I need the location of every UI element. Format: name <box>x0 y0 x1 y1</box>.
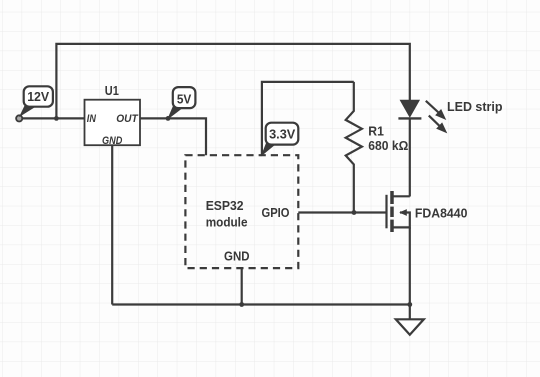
pin label GND (U1) <box>102 135 122 147</box>
label 12V callout <box>20 86 53 116</box>
voltage regulator U1 <box>85 100 141 146</box>
wire GPIO to MOSFET gate <box>298 211 386 213</box>
wire ESP32 3.3V node up and over to R1 top <box>262 82 354 155</box>
svg-text:OUT: OUT <box>116 113 139 125</box>
svg-text:module: module <box>206 215 248 230</box>
junction node 5V <box>166 116 171 121</box>
transistor Q1 FDA8440 (N-MOSFET) <box>387 191 410 232</box>
pin label GND (ESP32) <box>224 249 250 264</box>
svg-text:GND: GND <box>224 249 250 264</box>
LED (anode top, cathode bar) <box>398 100 421 118</box>
pin label IN <box>87 113 97 125</box>
svg-text:IN: IN <box>87 113 97 125</box>
ground <box>396 305 424 335</box>
pin label GPIO <box>262 205 290 220</box>
svg-text:ESP32: ESP32 <box>206 198 244 213</box>
svg-text:5V: 5V <box>177 91 192 106</box>
label R1 value 680 kOhm <box>368 124 408 154</box>
label U1 <box>105 83 119 98</box>
svg-text:LED strip: LED strip <box>447 99 503 114</box>
label FDA8440 <box>415 205 468 220</box>
resistor R1 <box>346 82 362 213</box>
wire 12V rail top: node A up, across top, down to LED anode <box>56 44 409 119</box>
wire 12V terminal to U1 IN <box>19 117 85 119</box>
junction ESP32 GND / ground rail <box>239 302 244 307</box>
wire LED cathode to MOSFET drain <box>409 118 411 196</box>
svg-text:GPIO: GPIO <box>262 205 290 220</box>
wire U1 OUT to 5V node and down to ESP32 <box>140 118 206 155</box>
LED emission arrows <box>426 101 447 133</box>
ESP32 module box <box>185 155 298 268</box>
wire MOSFET source down to ground node <box>409 228 411 305</box>
label 5V callout <box>168 87 195 118</box>
junction R1 bottom / gate <box>352 210 357 215</box>
svg-text:3.3V: 3.3V <box>269 127 296 142</box>
label 3.3V callout <box>262 123 298 155</box>
junction node A (12V) <box>54 116 59 121</box>
label ESP32 module <box>206 198 248 230</box>
junction ground node <box>407 302 412 307</box>
wire ground rail (U1 GND to ground node) <box>112 303 410 305</box>
svg-text:R1: R1 <box>368 124 384 139</box>
svg-text:U1: U1 <box>105 83 119 98</box>
label LED strip <box>447 99 503 114</box>
svg-text:FDA8440: FDA8440 <box>415 205 468 220</box>
pin label OUT <box>116 113 139 125</box>
wire U1 GND down to ground rail <box>111 145 113 304</box>
terminal 12V input <box>16 115 22 121</box>
svg-text:12V: 12V <box>27 89 49 104</box>
wire ESP32 GND down to ground rail <box>241 268 243 304</box>
svg-text:680 kΩ: 680 kΩ <box>368 138 408 153</box>
